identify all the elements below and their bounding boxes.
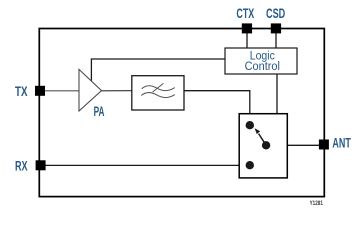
switch throw contact RX xyxy=(246,161,254,169)
svg-text:Control: Control xyxy=(245,61,280,73)
svg-text:CTX: CTX xyxy=(236,6,254,21)
pin CTX (black square pad) xyxy=(242,23,252,33)
svg-text:TX: TX xyxy=(15,84,28,99)
op-amp PA (power amplifier triangle) xyxy=(79,69,102,111)
switch S1 (SPDT antenna switch) xyxy=(239,114,287,178)
pin TX (black square pad) xyxy=(35,86,45,96)
logic control block U1 xyxy=(225,48,297,74)
switch pole contact ANT xyxy=(262,141,270,149)
wire switch pole to ANT xyxy=(266,144,321,146)
wire CTX pin to Logic Control xyxy=(246,30,248,48)
wire TX to PA input xyxy=(45,90,80,92)
switch arm arrow xyxy=(259,134,267,146)
chip outline xyxy=(39,29,324,197)
svg-text:ANT: ANT xyxy=(332,136,351,151)
wire Logic Control to switch (control line) xyxy=(276,74,278,114)
pin CSD (black square pad) xyxy=(271,23,281,33)
pin ANT (black square pad) xyxy=(319,140,329,150)
wire Logic Control to PA (control line) xyxy=(91,59,225,82)
wire CSD pin to Logic Control xyxy=(275,30,277,48)
svg-text:PA: PA xyxy=(94,104,105,119)
filter U2 (bandpass filter block) xyxy=(132,76,184,110)
svg-text:CSD: CSD xyxy=(266,6,285,21)
pin RX (black square pad) xyxy=(36,160,46,170)
wire filter to switch throw 1 xyxy=(184,91,250,125)
svg-text:RX: RX xyxy=(15,159,28,174)
wire PA output to filter xyxy=(101,90,132,92)
svg-text:Y1281: Y1281 xyxy=(310,200,324,207)
wire RX to switch throw 2 xyxy=(45,164,250,166)
switch throw contact TX xyxy=(246,121,254,129)
